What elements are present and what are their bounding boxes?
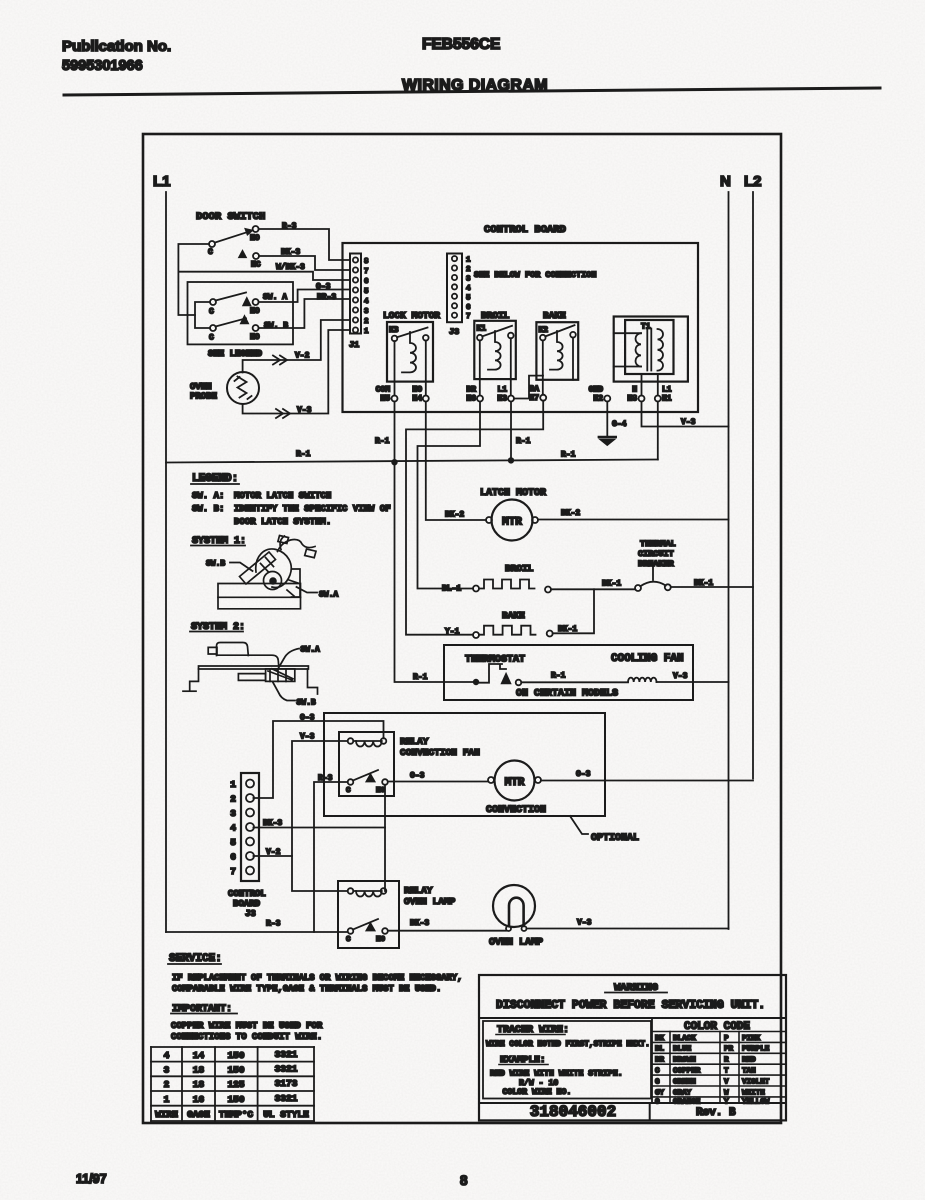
svg-text:OPTIONAL: OPTIONAL <box>591 833 639 844</box>
svg-text:TEMP°C: TEMP°C <box>219 1109 254 1120</box>
svg-text:2: 2 <box>164 1079 170 1090</box>
svg-text:R/W - 10: R/W - 10 <box>519 1078 558 1088</box>
svg-text:OVEN: OVEN <box>190 382 212 392</box>
pin numbers J3 1..7 <box>466 257 471 322</box>
system 1 latch mechanism drawing <box>218 536 316 609</box>
wire: K3 NO to pin E4 <box>425 341 427 396</box>
svg-text:J3: J3 <box>449 327 459 337</box>
svg-text:R-1: R-1 <box>551 672 566 681</box>
wire: pin E4 to latch motor <box>426 402 486 521</box>
svg-text:6: 6 <box>230 852 236 863</box>
svg-text:J1: J1 <box>349 340 359 350</box>
svg-text:SEE LEGEND: SEE LEGEND <box>208 349 263 359</box>
svg-text:CONTROL: CONTROL <box>228 889 266 899</box>
heating element: broil <box>473 580 551 593</box>
svg-text:V-2: V-2 <box>295 352 310 361</box>
svg-text:V-2: V-2 <box>266 848 281 857</box>
svg-text:PR: PR <box>724 1046 734 1054</box>
svg-text:SW. B:: SW. B: <box>192 504 224 514</box>
wire V-3: oven lamp to N rail <box>527 928 729 930</box>
svg-text:SW.A: SW.A <box>301 646 320 655</box>
wire: SW.A and SW.B commons tied <box>195 302 210 328</box>
oven probe (RTD sensor) <box>227 372 259 404</box>
heating element: bake <box>473 626 553 638</box>
wire: pin E6 to broil element <box>418 402 481 589</box>
wire: K1 right to pin E3 <box>510 338 512 395</box>
svg-text:18: 18 <box>193 1065 205 1076</box>
svg-text:MOTOR LATCH SWITCH: MOTOR LATCH SWITCH <box>234 491 331 501</box>
svg-text:BK-3: BK-3 <box>410 919 429 928</box>
wire V-2: J3 pin6 to V-3 riser <box>253 855 292 857</box>
relay K3 lock motor <box>387 322 433 382</box>
svg-text:LATCH MOTOR: LATCH MOTOR <box>480 488 546 499</box>
svg-text:BK-3: BK-3 <box>263 819 282 828</box>
svg-text:R-1: R-1 <box>375 437 390 446</box>
svg-text:V-3: V-3 <box>300 733 315 742</box>
svg-text:COOLING FAN: COOLING FAN <box>611 653 684 665</box>
wire BR-3: SW.B NO to J1 pin 4 <box>259 299 350 328</box>
svg-text:O-3: O-3 <box>576 770 591 779</box>
svg-text:8: 8 <box>364 258 369 266</box>
pin E7 BA <box>529 385 546 403</box>
optional convection fan box <box>324 713 605 816</box>
svg-text:NO: NO <box>250 307 260 316</box>
svg-text:Y-1: Y-1 <box>445 628 460 637</box>
svg-text:5: 5 <box>466 294 471 302</box>
pin E2 GND <box>589 386 611 404</box>
svg-text:BAKE: BAKE <box>543 310 566 321</box>
svg-text:5995301966: 5995301966 <box>62 58 143 74</box>
svg-text:PINK: PINK <box>742 1035 761 1043</box>
svg-text:150: 150 <box>227 1050 244 1061</box>
wire BK-3: door NC to J1 pin 7 <box>259 256 350 270</box>
svg-text:P: P <box>724 1035 729 1043</box>
pin E8 N <box>627 386 644 404</box>
wire: pin E3 down to R-1 bus <box>510 402 512 461</box>
LEGEND heading <box>191 473 239 485</box>
svg-text:UL STYLE: UL STYLE <box>263 1109 309 1120</box>
svg-text:BA: BA <box>529 385 539 394</box>
TRACER WIRE heading <box>496 1025 569 1036</box>
wire: K2 left terminal down to pin E7 <box>542 340 544 394</box>
switch SW.A <box>209 293 287 317</box>
svg-text:E4: E4 <box>412 395 422 404</box>
svg-text:SEE BELOW FOR CONNECTION: SEE BELOW FOR CONNECTION <box>474 270 596 280</box>
wire V-2: oven probe top to J1 pin 2 <box>243 320 350 373</box>
svg-text:L1: L1 <box>497 386 507 395</box>
svg-text:GY: GY <box>655 1089 665 1097</box>
svg-text:318046002: 318046002 <box>530 1103 616 1121</box>
header rule line <box>64 88 880 95</box>
svg-text:R-1: R-1 <box>413 673 428 682</box>
svg-text:R-3: R-3 <box>266 920 281 929</box>
svg-text:GREEN: GREEN <box>673 1078 696 1086</box>
svg-text:V-3: V-3 <box>297 406 312 415</box>
svg-text:5: 5 <box>230 837 236 848</box>
label OPTIONAL with leader <box>570 816 639 844</box>
relay K2 bake <box>536 322 578 380</box>
switch: door switch C-NO-NC <box>208 226 261 270</box>
svg-text:THERMAL: THERMAL <box>640 539 676 549</box>
svg-text:O-3: O-3 <box>410 772 425 781</box>
color table left border <box>651 1018 653 1103</box>
label SW.A (system 1) with leader <box>297 587 339 600</box>
lamp: oven lamp <box>493 885 535 931</box>
svg-text:C: C <box>346 787 351 795</box>
svg-text:CONVECTION: CONVECTION <box>486 805 546 816</box>
wire BK-1: broil element to thermal breaker <box>551 588 635 590</box>
wire R-3: L1 rail to oven lamp relay C <box>166 931 348 933</box>
svg-text:PURPLE: PURPLE <box>742 1046 770 1054</box>
svg-text:3: 3 <box>164 1065 170 1076</box>
wire O-3: J3 pin2 to convection relay coil <box>253 721 383 798</box>
svg-text:MTR: MTR <box>505 777 525 789</box>
svg-text:BK-3: BK-3 <box>281 248 300 257</box>
svg-text:BLUE: BLUE <box>673 1046 692 1054</box>
svg-text:V-3: V-3 <box>577 919 592 928</box>
wire O-3: relay NO to convection motor <box>388 781 488 783</box>
svg-text:4: 4 <box>164 1050 170 1061</box>
SERVICE heading <box>168 953 222 965</box>
ground G-4 <box>599 402 616 446</box>
relay oven lamp <box>338 881 399 948</box>
svg-text:E6: E6 <box>466 395 476 404</box>
wire: pin E5 down to R-1 bus junction <box>394 402 396 463</box>
legend SW. A line <box>192 491 331 501</box>
svg-text:11/97: 11/97 <box>76 1172 107 1186</box>
svg-text:6: 6 <box>364 278 369 286</box>
svg-text:SW. B: SW. B <box>264 322 288 331</box>
svg-text:O-3: O-3 <box>300 714 315 723</box>
svg-text:R-1: R-1 <box>296 450 311 459</box>
legend SW. B lines <box>192 504 391 527</box>
svg-text:N: N <box>632 386 637 395</box>
title: publication number <box>62 38 171 74</box>
svg-text:C: C <box>208 248 213 257</box>
svg-text:G: G <box>655 1078 660 1086</box>
svg-text:14: 14 <box>193 1050 205 1061</box>
svg-text:5: 5 <box>364 288 369 296</box>
wire: pin E7 to bake element <box>406 401 543 635</box>
wire: L1 rail vertical <box>165 192 167 932</box>
wire BK-1: bake element tie to broil output <box>553 589 594 633</box>
warning box <box>479 975 786 1120</box>
wire R-3: convection relay C to L1 feed riser <box>314 782 348 932</box>
pin numbers J1 8..1 <box>364 258 369 336</box>
svg-text:NO: NO <box>250 234 260 243</box>
svg-text:DISCONNECT POWER BEFORE SERVIC: DISCONNECT POWER BEFORE SERVICING UNIT. <box>496 999 765 1012</box>
svg-text:BL: BL <box>655 1046 665 1054</box>
wire R-1 bus: L1 rail to pin E1 <box>166 460 658 463</box>
label CONTROL BOARD J3 <box>228 889 266 919</box>
wire V-3: pin E8 to N rail <box>642 402 729 427</box>
label RELAY OVEN LAMP <box>404 885 456 907</box>
label SW.A (system 2) with leader <box>277 646 320 671</box>
svg-text:8: 8 <box>460 1173 468 1188</box>
example text <box>490 1070 623 1098</box>
svg-text:IDENTIFY THE SPECIFIC VIEW OF: IDENTIFY THE SPECIFIC VIEW OF <box>234 504 391 514</box>
svg-text:SW.B: SW.B <box>206 560 225 569</box>
svg-text:2: 2 <box>466 266 471 274</box>
svg-text:BK-2: BK-2 <box>445 511 464 520</box>
svg-text:NO: NO <box>376 787 386 795</box>
svg-text:BR: BR <box>655 1057 665 1065</box>
splice chevrons on V-3 <box>276 409 290 418</box>
svg-text:K3: K3 <box>389 326 399 335</box>
wire: relay NO down to oven lamp relay coil right <box>384 785 386 891</box>
svg-text:L2: L2 <box>744 173 762 190</box>
svg-text:O-3: O-3 <box>316 283 331 292</box>
pin numbers bottom J3 1..7 <box>230 779 236 877</box>
motor MTR latch <box>486 500 538 541</box>
svg-text:E7: E7 <box>529 394 539 403</box>
svg-text:RED: RED <box>742 1057 756 1065</box>
svg-text:BK: BK <box>655 1035 665 1043</box>
svg-text:DOOR LATCH SYSTEM.: DOOR LATCH SYSTEM. <box>234 517 331 527</box>
svg-text:E1: E1 <box>662 395 672 404</box>
color code grid <box>652 1032 786 1104</box>
svg-text:BLACK: BLACK <box>673 1035 696 1043</box>
service note text <box>172 973 462 994</box>
junction dot E3/R-1 <box>508 457 514 463</box>
wire: thermostat to cooling fan <box>521 681 628 683</box>
svg-text:K2: K2 <box>539 326 549 335</box>
svg-text:2: 2 <box>230 794 236 805</box>
svg-text:1: 1 <box>466 257 471 265</box>
svg-text:BK-1: BK-1 <box>694 579 713 588</box>
svg-text:V: V <box>724 1078 729 1086</box>
wire: door switch common to W/BK-3 and latch switches <box>178 244 209 315</box>
svg-text:NO: NO <box>250 333 260 342</box>
svg-text:NO: NO <box>376 936 386 944</box>
svg-text:BR: BR <box>466 386 476 395</box>
switch SW.B <box>209 316 288 342</box>
svg-text:18: 18 <box>193 1079 205 1090</box>
color code entries <box>655 1035 770 1107</box>
svg-text:DOOR SWITCH: DOOR SWITCH <box>196 211 265 223</box>
pin E3 L1 <box>497 386 514 404</box>
svg-text:PROBE: PROBE <box>190 392 218 402</box>
svg-text:W/BK-3: W/BK-3 <box>276 263 305 272</box>
svg-text:1: 1 <box>164 1094 170 1105</box>
svg-text:E2: E2 <box>593 395 603 404</box>
svg-text:COLOR WIRE NO.: COLOR WIRE NO. <box>503 1088 572 1097</box>
label RELAY CONVECTION FAN <box>400 736 480 758</box>
svg-text:150: 150 <box>227 1065 244 1076</box>
warning left cell inner box <box>483 1021 651 1099</box>
svg-text:FEB556CE: FEB556CE <box>422 36 500 53</box>
svg-text:R-1: R-1 <box>516 437 531 446</box>
label SW.B (system 1) with leader <box>206 560 253 572</box>
svg-text:3: 3 <box>230 808 236 819</box>
wire BK-1: breaker to L2 rail <box>671 586 753 588</box>
svg-text:CONTROL BOARD: CONTROL BOARD <box>484 224 566 236</box>
transformer T1 outer box <box>614 317 688 382</box>
svg-text:RED WIRE WITH WHITE STRIPE.: RED WIRE WITH WHITE STRIPE. <box>490 1070 623 1079</box>
connector J3 (7-pin, top) <box>447 254 462 323</box>
svg-text:CONVECTION FAN: CONVECTION FAN <box>400 747 480 758</box>
svg-text:EXAMPLE:: EXAMPLE: <box>500 1054 546 1065</box>
svg-text:CONNECTIONS TO CONDUIT WIRE.: CONNECTIONS TO CONDUIT WIRE. <box>171 1032 322 1042</box>
svg-text:SW.B: SW.B <box>297 699 316 708</box>
svg-text:WIRE: WIRE <box>155 1109 178 1120</box>
svg-text:CIRCUIT: CIRCUIT <box>638 549 674 559</box>
wire R-3: door NO to J1 pin 8 <box>259 229 350 260</box>
thermal circuit breaker label <box>638 539 676 569</box>
svg-text:LOCK MOTOR: LOCK MOTOR <box>383 310 440 321</box>
svg-text:BROIL: BROIL <box>481 310 510 321</box>
svg-text:3: 3 <box>364 308 369 316</box>
svg-text:Publication No.: Publication No. <box>62 38 171 55</box>
svg-text:TAN: TAN <box>742 1068 756 1076</box>
SYSTEM 1 heading <box>191 536 246 547</box>
thermostat contact <box>473 664 522 685</box>
oven probe label <box>190 382 218 402</box>
system 2 latch mechanism drawing <box>183 643 318 695</box>
svg-text:BAKE: BAKE <box>502 610 525 621</box>
thermal circuit breaker <box>635 564 671 591</box>
wire O-3: SW.A NO to J1 pin 5 <box>259 290 350 303</box>
svg-text:3321: 3321 <box>275 1049 298 1060</box>
warning box divider <box>479 1017 786 1019</box>
control board box <box>343 243 699 412</box>
wire W/BK-3: common to J1 pin 6 <box>178 272 350 280</box>
connector J3 (bottom, control board) <box>241 773 259 881</box>
svg-text:RELAY: RELAY <box>400 736 429 747</box>
transformer T1 inner box <box>625 320 673 374</box>
junction dot E5/R-1 <box>391 459 397 465</box>
svg-text:V-3: V-3 <box>681 418 696 427</box>
wire: K1 left to pin E6 <box>479 340 481 395</box>
wire BK-3: J3 pin4 to oven lamp relay coil right riser <box>253 827 385 829</box>
svg-text:R-3: R-3 <box>282 222 297 231</box>
svg-text:WHITE: WHITE <box>742 1089 765 1097</box>
svg-text:IF REPLACEMENT OF TERMINALS OR: IF REPLACEMENT OF TERMINALS OR WIRING BE… <box>172 973 462 983</box>
svg-text:BROIL: BROIL <box>505 563 534 574</box>
svg-text:150: 150 <box>227 1094 244 1105</box>
wire: N rail vertical <box>728 192 730 929</box>
svg-text:3321: 3321 <box>275 1093 298 1104</box>
svg-text:MTR: MTR <box>502 517 522 529</box>
latch switch box (SEE LEGEND) <box>188 282 294 344</box>
svg-text:SW.A: SW.A <box>319 591 338 600</box>
svg-text:K1: K1 <box>477 325 487 334</box>
svg-text:C: C <box>209 334 214 343</box>
wire V-3: oven probe bottom to J1 pin 1 <box>243 330 350 414</box>
SYSTEM 2 heading <box>190 622 245 633</box>
wire: K3 common to pin E5 <box>394 341 396 395</box>
svg-text:COPPER: COPPER <box>673 1068 701 1076</box>
WARNING heading <box>605 982 667 994</box>
wire: T1 to pin E8 <box>641 374 643 396</box>
svg-text:BR-3: BR-3 <box>317 293 336 302</box>
svg-text:OVEN LAMP: OVEN LAMP <box>404 896 456 907</box>
diagram border frame <box>143 134 781 1123</box>
svg-text:7: 7 <box>466 313 471 321</box>
IMPORTANT heading <box>171 1004 237 1015</box>
svg-text:N: N <box>720 173 731 190</box>
pin E4 NO <box>412 386 428 404</box>
svg-text:GAGE: GAGE <box>187 1109 210 1120</box>
svg-text:NC: NC <box>251 261 261 270</box>
svg-text:R-3: R-3 <box>318 774 333 783</box>
svg-text:G-4: G-4 <box>612 420 627 429</box>
svg-text:C: C <box>655 1068 660 1076</box>
svg-text:VIOLET: VIOLET <box>742 1078 770 1086</box>
svg-text:L1: L1 <box>662 386 672 395</box>
pin E1 L1 <box>655 386 672 404</box>
pin E5 COM <box>376 386 398 404</box>
label SW.B (system 2) with leader <box>273 683 316 708</box>
svg-text:COM: COM <box>376 386 391 395</box>
wire BK-3: relay NO to oven lamp <box>388 930 506 932</box>
svg-text:SW. A: SW. A <box>263 293 287 302</box>
svg-text:RELAY: RELAY <box>404 885 433 896</box>
wire V-3: relay coil left to oven lamp relay coil <box>292 741 348 891</box>
wire: K2 right terminal stub <box>572 338 574 380</box>
svg-text:7: 7 <box>230 866 236 877</box>
svg-text:E3: E3 <box>497 395 507 404</box>
svg-text:4: 4 <box>466 285 471 293</box>
svg-text:NO: NO <box>412 386 422 395</box>
cooling fan motor winding <box>628 678 657 682</box>
svg-text:R: R <box>724 1057 729 1065</box>
svg-text:E5: E5 <box>380 395 390 404</box>
svg-text:C: C <box>209 308 214 317</box>
wire: T1 to pin E1 <box>657 374 659 396</box>
svg-text:BL-1: BL-1 <box>442 585 461 594</box>
wire: pin E5 junction down to thermostat R-1 <box>395 462 474 682</box>
wire: L2 rail vertical <box>752 192 754 779</box>
svg-text:4: 4 <box>364 298 369 306</box>
svg-text:4: 4 <box>230 823 236 834</box>
svg-text:OVEN LAMP: OVEN LAMP <box>489 938 543 949</box>
relay convection fan <box>339 732 394 796</box>
transformer T1 windings and core <box>614 329 663 371</box>
svg-text:BROWN: BROWN <box>673 1057 696 1065</box>
svg-text:3: 3 <box>466 276 471 284</box>
svg-text:Rev. B: Rev. B <box>696 1107 736 1119</box>
svg-text:ON CERTAIN MODELS: ON CERTAIN MODELS <box>516 689 618 700</box>
svg-text:COPPER WIRE MUST BE USED FOR: COPPER WIRE MUST BE USED FOR <box>171 1021 323 1031</box>
svg-text:COMPARABLE WIRE TYPE,GAGE & TE: COMPARABLE WIRE TYPE,GAGE & TERMINALS MU… <box>172 984 441 994</box>
svg-text:7: 7 <box>364 268 369 276</box>
svg-text:3321: 3321 <box>275 1064 298 1075</box>
splice chevrons on V-2 <box>273 356 287 365</box>
svg-text:BK-2: BK-2 <box>561 509 580 518</box>
svg-text:L1: L1 <box>153 173 171 190</box>
svg-text:125: 125 <box>227 1079 244 1090</box>
relay K1 broil <box>474 321 516 379</box>
svg-text:1: 1 <box>230 779 236 790</box>
thermostat / cooling fan box <box>444 645 693 700</box>
wire O-3: convection motor to L2 rail <box>541 780 753 782</box>
wire BK-2: latch motor to N rail <box>538 519 729 521</box>
svg-text:16: 16 <box>193 1094 205 1105</box>
svg-text:E8: E8 <box>627 395 637 404</box>
svg-text:BOARD: BOARD <box>233 899 261 909</box>
svg-text:1: 1 <box>364 328 369 336</box>
svg-text:V-3: V-3 <box>673 672 688 681</box>
svg-text:R-1: R-1 <box>561 451 576 460</box>
svg-text:3173: 3173 <box>275 1078 298 1089</box>
svg-text:BK-1: BK-1 <box>558 625 577 634</box>
pin E6 BR <box>466 386 483 404</box>
motor MTR convection fan <box>488 761 541 801</box>
svg-text:W: W <box>724 1089 729 1097</box>
svg-text:J3: J3 <box>245 909 256 919</box>
wire: pin E1 down to R-1 bus <box>657 402 659 460</box>
